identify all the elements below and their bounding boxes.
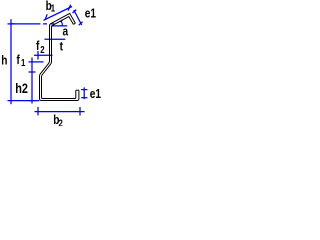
e1 top upper tick xyxy=(73,10,77,13)
angle ray (horizontal reference from inner corner) xyxy=(51,25,67,27)
svg-text:f: f xyxy=(17,54,20,67)
b1 upper tick xyxy=(68,5,71,11)
b2 right tick xyxy=(79,107,81,116)
label f1 xyxy=(17,54,20,67)
label e1 bottom xyxy=(90,87,102,101)
h top extension line (dashed at end) xyxy=(11,23,41,25)
svg-text:h2: h2 xyxy=(15,81,28,97)
h bottom tick + bottom extension line xyxy=(8,100,40,102)
svg-text:h: h xyxy=(1,53,7,67)
b1 dimension line xyxy=(44,7,73,21)
svg-text:t: t xyxy=(60,39,63,53)
b2 dimension line xyxy=(35,111,85,113)
svg-text:1: 1 xyxy=(51,3,55,14)
label b1 xyxy=(46,0,52,13)
e1 top dimension line xyxy=(74,10,82,25)
svg-text:f: f xyxy=(36,39,39,53)
svg-text:2: 2 xyxy=(59,117,63,126)
h top tick xyxy=(8,23,15,25)
svg-text:e1: e1 xyxy=(85,7,97,21)
e1 bottom dimension line xyxy=(83,87,85,99)
svg-text:2: 2 xyxy=(40,44,44,55)
f1 / h2 dimension vertical line xyxy=(31,58,33,104)
top lip end cap xyxy=(73,23,75,24)
label h2 xyxy=(15,81,28,97)
f1 top tick + extension line to jog top xyxy=(29,61,44,63)
label t xyxy=(60,39,63,53)
label f2 xyxy=(36,39,39,53)
e1 bottom top tick xyxy=(81,89,87,91)
angle arc tick on flange xyxy=(60,20,63,22)
b1 lower tick xyxy=(45,14,47,20)
f2 dimension horizontal line xyxy=(34,54,53,56)
e1 top lower tick xyxy=(79,22,83,25)
svg-text:1: 1 xyxy=(21,57,25,68)
label b2 xyxy=(53,113,59,127)
profile outer face xyxy=(40,13,79,100)
angle arc a xyxy=(61,21,62,26)
b2 left tick xyxy=(37,107,39,115)
svg-text:a: a xyxy=(63,24,69,38)
f1 bottom tick xyxy=(29,71,36,73)
bottom lip end cap xyxy=(76,89,79,91)
label e1 top xyxy=(85,7,97,21)
h2 bottom tick xyxy=(29,100,36,102)
t dimension line xyxy=(45,38,66,40)
e1 bottom bottom tick xyxy=(81,97,87,99)
profile inner face xyxy=(42,17,76,99)
label a xyxy=(63,24,69,38)
h dimension vertical line xyxy=(10,19,12,104)
svg-text:e1: e1 xyxy=(90,87,102,101)
f2 left tick / extension xyxy=(37,51,39,60)
label h xyxy=(1,53,7,67)
